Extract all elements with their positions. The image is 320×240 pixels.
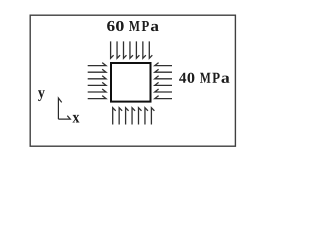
y axis arrow xyxy=(58,98,61,119)
axis label x xyxy=(73,115,80,123)
right distributed load arrows (40 MPa, pointing left) xyxy=(155,63,172,99)
bottom distributed load arrows (pointing up) xyxy=(113,108,155,125)
x axis arrow xyxy=(58,116,70,119)
left distributed load arrows (pointing right) xyxy=(88,63,106,99)
label 40 MPa xyxy=(179,73,229,83)
border frame xyxy=(30,15,235,146)
label 60 MPa xyxy=(107,21,159,31)
axis label y xyxy=(38,90,45,101)
top distributed load arrows (60 MPa, pointing down) xyxy=(111,41,153,58)
stress element square xyxy=(111,63,151,102)
